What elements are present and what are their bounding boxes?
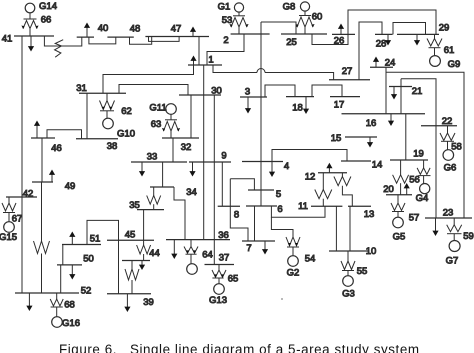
wire 24-23	[386, 72, 464, 218]
svg-text:11: 11	[298, 201, 308, 212]
svg-text:65: 65	[228, 273, 239, 284]
transformer 61	[427, 34, 442, 55]
svg-text:2: 2	[223, 35, 228, 46]
bus 5	[248, 189, 274, 191]
load arrow bus 7	[262, 241, 268, 255]
wire 46-49	[41, 138, 43, 182]
load arrow bus 18	[303, 97, 309, 114]
wire 51-45	[87, 220, 119, 244]
wire 30-9-37	[213, 95, 215, 265]
bus 24	[370, 66, 393, 68]
transformer 43-39	[125, 261, 139, 294]
load arrow bus 39	[124, 294, 130, 312]
wire 6-54	[271, 217, 293, 237]
svg-text:20: 20	[383, 184, 394, 195]
svg-text:G6: G6	[444, 162, 457, 173]
svg-text:16: 16	[366, 118, 377, 129]
transformer 66	[21, 19, 38, 36]
svg-text:G4: G4	[416, 193, 429, 204]
bus 45	[107, 239, 154, 241]
transformer 34-35	[147, 187, 161, 210]
svg-text:57: 57	[409, 212, 420, 223]
transformer 68	[50, 293, 63, 317]
svg-text:23: 23	[443, 207, 454, 218]
transformer 44 chain	[137, 240, 151, 260]
load arrow bus 4	[269, 162, 275, 178]
transformer 12-13	[334, 173, 352, 207]
svg-text:25: 25	[286, 37, 297, 48]
wire 32-33	[172, 138, 174, 162]
bus 15	[345, 136, 377, 138]
bus 6	[246, 205, 277, 207]
bus 42	[6, 196, 37, 198]
wire 13-10	[349, 206, 351, 251]
svg-text:45: 45	[125, 229, 136, 240]
svg-text:6: 6	[277, 204, 282, 215]
transformer 57	[391, 195, 405, 218]
bus 7	[242, 240, 275, 242]
svg-text:G3: G3	[342, 288, 355, 299]
scan speck	[281, 298, 283, 300]
wire 21-16	[400, 79, 402, 114]
bus 38	[76, 138, 118, 140]
transformer 12-11	[315, 173, 332, 207]
wire 17-18	[312, 85, 342, 97]
transformer 60	[295, 16, 314, 35]
svg-text:9: 9	[221, 150, 226, 161]
generator G14	[25, 3, 35, 18]
transformer 56	[417, 160, 430, 184]
generator G8	[300, 2, 309, 15]
svg-text:1: 1	[208, 54, 213, 65]
generator G2	[288, 256, 299, 267]
svg-text:39: 39	[143, 297, 154, 308]
wire 8-7	[230, 179, 248, 241]
bus 4	[242, 161, 283, 163]
wire 3-4-5-6 vertical	[260, 97, 262, 206]
bus 8	[218, 205, 240, 207]
transformer 54	[286, 237, 300, 256]
svg-text:67: 67	[12, 213, 23, 224]
wire 5-8	[230, 179, 254, 190]
load arrow bus 21	[391, 87, 397, 100]
bus 30	[179, 94, 221, 96]
generator G9	[430, 56, 441, 67]
svg-text:37: 37	[219, 252, 230, 263]
bus 20	[386, 194, 412, 196]
load arrow bus 43	[139, 261, 145, 271]
wire 26-29 (top route)	[348, 10, 436, 34]
load arrow bus 28	[385, 34, 391, 45]
wire 40-48	[89, 37, 116, 44]
svg-text:52: 52	[81, 285, 92, 296]
generator G1	[234, 3, 243, 16]
wire 41-40 with breaker zigzag	[44, 36, 81, 57]
load arrow bus 26 (up)	[338, 24, 344, 35]
bus 16	[342, 113, 426, 115]
transformer 63	[162, 114, 180, 138]
bus 46	[31, 137, 55, 139]
svg-text:41: 41	[2, 33, 13, 44]
svg-text:27: 27	[342, 66, 353, 77]
bus 3	[240, 96, 267, 98]
wire 26 spine to 28 jog	[359, 22, 382, 80]
bus 39	[107, 293, 151, 295]
bus 31	[79, 92, 126, 94]
wire 6-11	[271, 206, 325, 217]
load arrow bus 52	[26, 293, 32, 311]
svg-text:42: 42	[23, 188, 34, 199]
transformer 59	[447, 218, 462, 240]
generator G3	[343, 276, 354, 287]
svg-text:G11: G11	[149, 102, 166, 113]
svg-text:G13: G13	[209, 295, 227, 306]
svg-text:29: 29	[439, 22, 450, 33]
svg-text:G1: G1	[218, 1, 231, 12]
transformer 62	[100, 93, 115, 118]
wire 18-3	[265, 85, 295, 97]
bus 22	[421, 125, 457, 127]
bus 2	[231, 33, 270, 35]
svg-text:38: 38	[107, 141, 118, 152]
bus 48	[107, 36, 133, 38]
bus 25	[281, 33, 327, 35]
wire 48-47 circuit 2	[149, 37, 180, 42]
wire 6-7	[254, 206, 256, 241]
svg-text:48: 48	[130, 23, 141, 34]
svg-text:49: 49	[65, 181, 76, 192]
svg-text:22: 22	[442, 116, 453, 127]
bus 50	[57, 264, 82, 266]
wire 1-2	[207, 34, 244, 65]
svg-text:36: 36	[218, 230, 229, 241]
load arrow bus 46 (up)	[34, 121, 40, 139]
wire 28-29	[393, 23, 426, 35]
svg-text:21: 21	[412, 86, 423, 97]
load arrow bus 29	[414, 34, 420, 45]
bus 35	[137, 209, 164, 211]
svg-text:53: 53	[222, 15, 233, 26]
generator G16	[52, 317, 63, 328]
wire 2-3 vertical (through hop)	[260, 22, 262, 97]
generator G15	[4, 222, 15, 233]
svg-text:8: 8	[234, 209, 239, 220]
wire 51-50	[62, 245, 64, 265]
svg-text:14: 14	[372, 159, 383, 170]
wire 11-10	[335, 206, 337, 251]
bus 47	[145, 36, 209, 38]
bus 51	[62, 244, 101, 246]
bus 36	[166, 239, 230, 241]
wire 34-36	[174, 187, 185, 240]
svg-text:47: 47	[171, 23, 182, 34]
svg-text:G9: G9	[448, 59, 461, 70]
svg-text:34: 34	[186, 187, 197, 198]
load arrow bus 49 (up)	[49, 170, 55, 183]
bus 52	[15, 292, 79, 294]
svg-text:12: 12	[305, 171, 316, 182]
transformer 58	[440, 126, 455, 150]
generator G10	[103, 118, 114, 129]
svg-text:G2: G2	[287, 267, 300, 278]
wire 2-25	[261, 22, 296, 34]
svg-text:68: 68	[64, 299, 75, 310]
bus 49	[32, 181, 53, 183]
svg-text:66: 66	[41, 14, 52, 25]
bus 37	[205, 264, 235, 266]
svg-text:15: 15	[331, 133, 342, 144]
bus 17	[330, 96, 360, 98]
svg-text:31: 31	[76, 83, 87, 94]
svg-text:Figure 6. Single line diagra: Figure 6. Single line diagram of a 5-are…	[59, 342, 419, 353]
load arrow bus 12 (up)	[326, 163, 332, 173]
wire 48-47 circuit 1	[130, 37, 152, 45]
svg-text:59: 59	[463, 231, 474, 242]
wire 30-32	[190, 95, 192, 138]
generator G11	[166, 104, 177, 115]
wire 1-30-9-36	[203, 65, 205, 240]
wire 35-45	[143, 210, 145, 241]
wire 21-22-23	[401, 79, 436, 218]
svg-text:5: 5	[276, 189, 281, 200]
load arrow bus 24 (up)	[373, 57, 379, 68]
svg-text:G14: G14	[39, 1, 57, 12]
bus 40	[77, 36, 94, 38]
svg-text:33: 33	[147, 151, 158, 162]
load arrow bus 1 (up)	[190, 56, 196, 66]
svg-text:32: 32	[181, 142, 192, 153]
svg-text:51: 51	[90, 233, 101, 244]
transformer 19-20	[393, 160, 409, 195]
load arrow bus 36	[171, 240, 177, 259]
svg-text:58: 58	[451, 141, 462, 152]
wire 45-39	[118, 240, 120, 294]
wire 25-26	[312, 34, 348, 45]
svg-text:G10: G10	[117, 128, 135, 139]
svg-text:28: 28	[376, 38, 387, 49]
bus 26	[332, 33, 355, 35]
svg-text:G8: G8	[283, 1, 296, 12]
generator G6	[443, 150, 454, 161]
svg-text:G7: G7	[446, 255, 459, 266]
load arrow bus 33	[139, 162, 145, 177]
generator G5	[393, 217, 404, 228]
bus 41	[14, 35, 54, 37]
svg-text:G15: G15	[0, 232, 17, 243]
load arrow bus 20 (up)	[404, 183, 410, 195]
wire 16-19	[405, 114, 407, 160]
generator G12	[187, 264, 198, 275]
bus 12	[318, 172, 347, 174]
bus 13	[348, 205, 371, 207]
svg-text:62: 62	[121, 106, 132, 117]
bus 9	[189, 161, 231, 163]
transformer 64	[184, 240, 198, 264]
load arrow bus 40 (up)	[84, 23, 90, 38]
wire 9-8	[221, 162, 223, 206]
wire 31-38	[86, 93, 88, 138]
svg-text:18: 18	[292, 102, 303, 113]
svg-text:50: 50	[83, 253, 94, 264]
svg-text:G5: G5	[393, 231, 406, 242]
wire 30-31	[119, 85, 188, 96]
wire 42-52 (left vertical lower)	[21, 197, 23, 293]
load arrow bus 50	[69, 265, 75, 280]
wire 24-16	[385, 67, 387, 114]
wire 33-34	[162, 162, 164, 187]
svg-text:13: 13	[364, 209, 375, 220]
generator G7	[449, 241, 460, 252]
wire 4-14	[272, 150, 347, 162]
svg-text:4: 4	[284, 161, 289, 172]
svg-text:56: 56	[409, 174, 420, 185]
bus 27	[329, 79, 370, 81]
wire 1-27 with hop over 2-3	[213, 65, 334, 80]
generator G13	[214, 284, 225, 295]
svg-text:55: 55	[357, 266, 368, 277]
transformer 67	[2, 197, 16, 222]
bus 21	[389, 86, 412, 88]
transformer 55	[341, 251, 355, 276]
svg-text:44: 44	[149, 248, 160, 259]
load arrow bus 23	[432, 218, 438, 236]
load arrow bus 51 (up)	[69, 232, 75, 245]
bus 1	[188, 64, 222, 66]
svg-text:46: 46	[51, 143, 62, 154]
wire 47-1	[198, 37, 200, 66]
bus 23	[425, 217, 472, 219]
wire 46-38	[47, 130, 82, 139]
transformer 53	[229, 16, 248, 34]
svg-text:61: 61	[444, 45, 455, 56]
svg-text:G16: G16	[62, 318, 80, 329]
bus 14	[341, 160, 371, 162]
svg-text:10: 10	[366, 246, 377, 257]
svg-text:30: 30	[211, 85, 222, 96]
bus 34	[150, 186, 174, 188]
generator G4	[420, 184, 430, 194]
wire 50-52	[60, 265, 62, 293]
transformer 65	[212, 265, 226, 284]
svg-text:7: 7	[246, 243, 251, 254]
wire 41-42 (left vertical)	[21, 36, 23, 197]
svg-text:35: 35	[129, 200, 140, 211]
load arrow bus 41	[28, 36, 34, 52]
bus 33	[131, 161, 187, 163]
svg-text:63: 63	[151, 119, 162, 130]
svg-text:26: 26	[334, 35, 345, 46]
bus 10	[329, 250, 368, 252]
wire 49-52 with transformer	[34, 182, 50, 293]
load arrow bus 16	[388, 114, 394, 126]
bus 43	[122, 260, 150, 262]
load arrow bus 3	[245, 97, 251, 114]
load arrow bus 9	[189, 162, 195, 177]
svg-text:60: 60	[312, 11, 323, 22]
load arrow bus 47 (up)	[190, 27, 196, 37]
bus 11	[311, 205, 342, 207]
svg-text:40: 40	[98, 23, 109, 34]
bus 18	[286, 96, 314, 98]
bus 32	[162, 137, 199, 139]
load arrow bus 15	[367, 137, 373, 148]
svg-text:19: 19	[413, 148, 424, 159]
svg-text:17: 17	[334, 99, 345, 110]
bus 28	[375, 33, 393, 35]
svg-text:3: 3	[245, 86, 250, 97]
bus 29	[397, 33, 439, 35]
svg-text:64: 64	[202, 249, 213, 260]
svg-text:24: 24	[385, 57, 396, 68]
svg-text:54: 54	[305, 253, 316, 264]
bus 19	[390, 159, 428, 161]
wire 1-31	[103, 65, 194, 93]
